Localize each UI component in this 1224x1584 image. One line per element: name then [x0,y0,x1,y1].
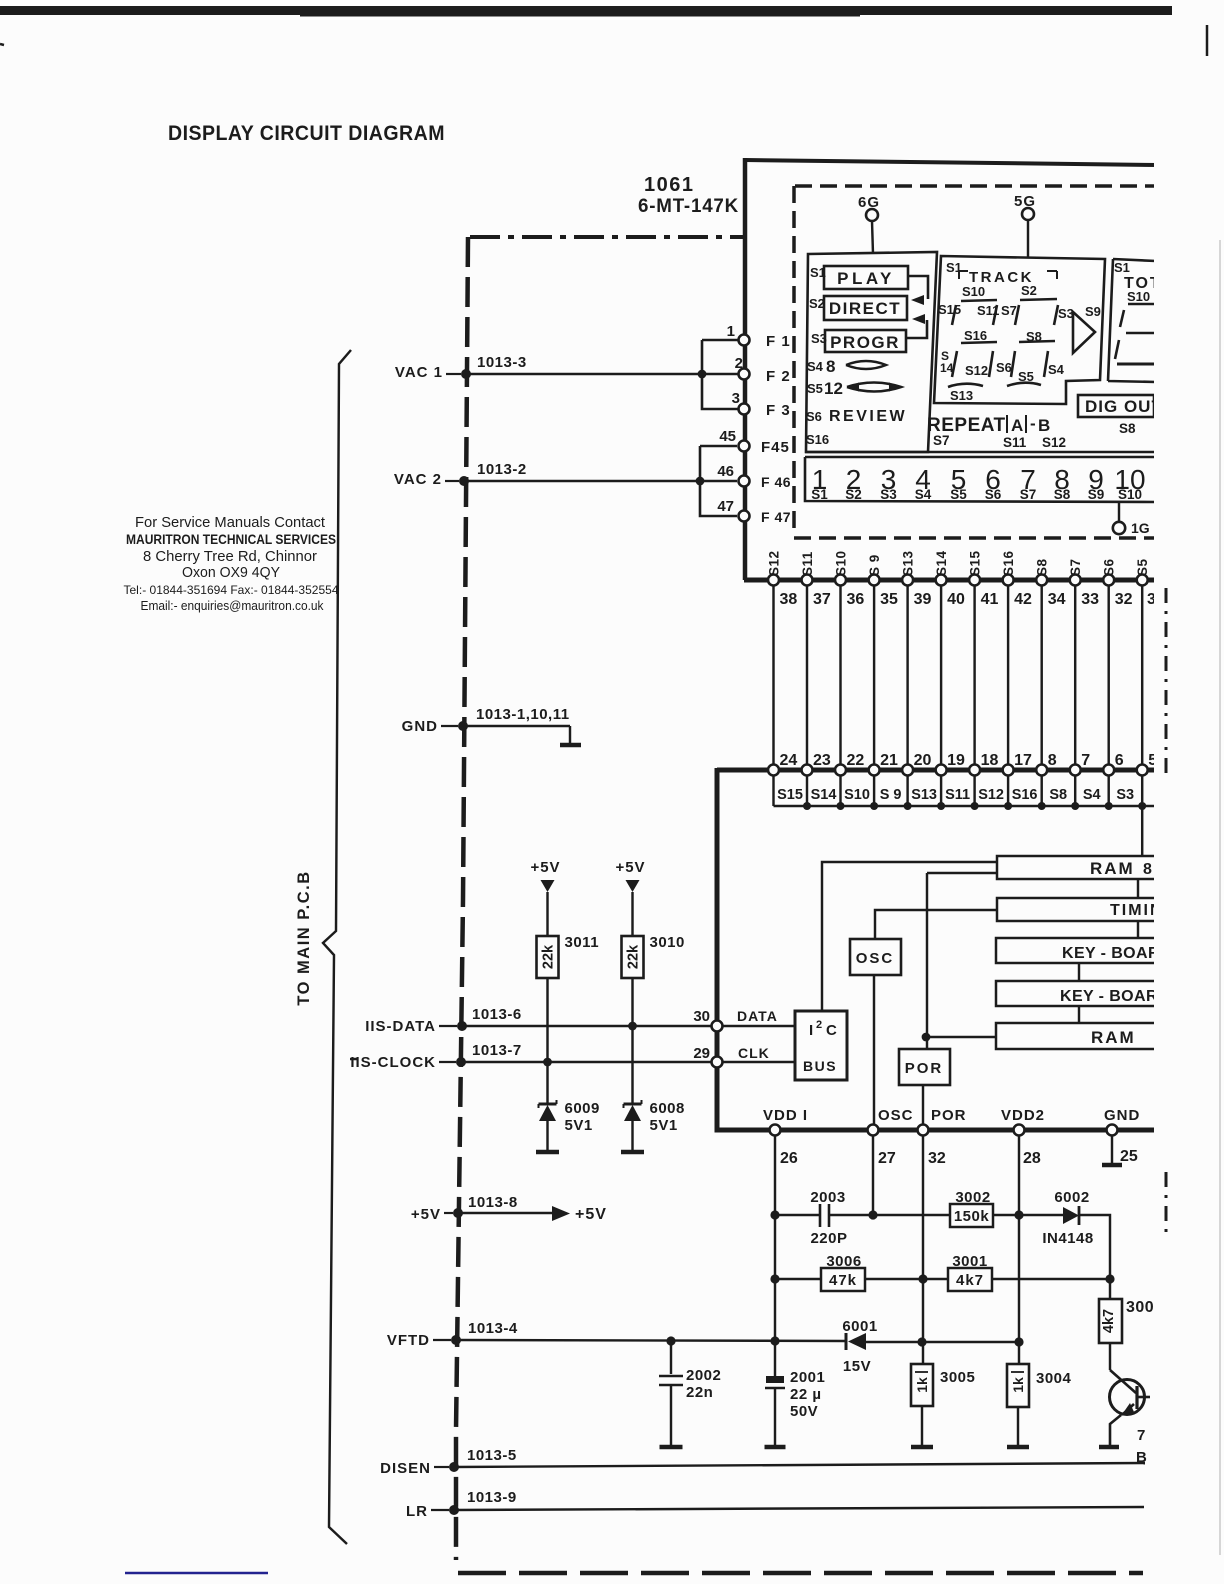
svg-text:GND: GND [402,718,438,735]
digits row box [805,457,1156,502]
svg-text:1013-4: 1013-4 [468,1320,518,1337]
arrow +5V [552,1206,570,1221]
ground symbol GND wire [560,743,581,748]
scan artifact grey edge line [1219,240,1221,1555]
block POR [899,1049,950,1085]
svg-text:S6: S6 [996,360,1012,375]
svg-text:OSC: OSC [878,1107,914,1124]
ground symbol col2 [621,1150,644,1155]
svg-text:S16: S16 [1001,550,1016,576]
svg-text:F 3: F 3 [766,402,791,419]
svg-text:S16: S16 [964,328,987,343]
block I2C BUS [795,1011,847,1080]
svg-text:S8: S8 [1049,787,1067,803]
wire line2 to 4k7 [1109,1279,1111,1299]
svg-text:For Service Manuals Contact: For Service Manuals Contact [135,514,326,531]
panel mode indicators outline [806,252,937,452]
wire net line2 mid [865,1278,948,1280]
svg-text:3001: 3001 [952,1253,987,1270]
svg-text:S2: S2 [1021,283,1037,298]
scan cut right margin [1154,18,1224,1584]
svg-text:1013-8: 1013-8 [468,1194,518,1211]
indicator box DIG OUT [1078,395,1154,417]
wire KEYBOARD-RAM [1078,1006,1080,1023]
svg-text:30: 30 [693,1008,710,1025]
svg-text:REVIEW: REVIEW [829,408,907,425]
svg-text:8: 8 [826,357,835,376]
block KEY-BOARD upper [996,938,1156,963]
svg-text:VAC 2: VAC 2 [394,471,442,488]
wire IIS-CLOCK to pin29 [461,1061,717,1063]
svg-text:23: 23 [813,752,831,769]
wire resistor 3010 down [631,978,633,1104]
svg-text:VAC 1: VAC 1 [395,364,443,381]
svg-text:5V1: 5V1 [650,1117,678,1134]
stray tick mark [350,1058,357,1061]
block RAM lower [996,1023,1156,1049]
wire RAM-TIMING [1137,879,1139,898]
svg-text:47: 47 [717,498,734,515]
display block top edge [745,160,1157,165]
svg-text:S15: S15 [938,302,961,317]
svg-text:17: 17 [1014,752,1032,769]
pin row B circles [768,765,779,776]
svg-text:S5: S5 [807,381,823,396]
svg-text:POR: POR [931,1107,967,1124]
wire LR [454,1507,1144,1510]
svg-text:F 47: F 47 [761,509,791,525]
svg-text:2: 2 [816,1019,822,1031]
resistor 3006 47k [821,1268,865,1291]
display block bottom edge (pin row A) [744,578,1156,583]
svg-text:150k: 150k [954,1208,990,1225]
wire +5V to resistor 3011 [546,892,548,936]
svg-text:46: 46 [717,463,734,480]
wire VAC1 to F2 bracket [466,373,702,375]
svg-text:S10: S10 [1118,487,1142,502]
junction dots VFTD line [666,1336,675,1345]
svg-text:S2: S2 [809,296,825,311]
svg-text:S6: S6 [985,487,1002,502]
svg-text:S3: S3 [1058,306,1074,321]
svg-text:F 46: F 46 [761,474,791,490]
panel TOT outline [1108,259,1156,382]
svg-text:22n: 22n [686,1384,713,1401]
diode 6002 1N4148 [1063,1207,1079,1224]
ground symbol 3005 [911,1445,933,1450]
zener diode 6009 5V1 [539,1103,557,1106]
svg-text:50V: 50V [790,1403,818,1420]
svg-text:VDD I: VDD I [763,1107,808,1124]
svg-text:S2: S2 [845,487,862,502]
svg-text:S3: S3 [1116,787,1134,803]
svg-text:VFTD: VFTD [387,1332,430,1349]
svg-text:+5V: +5V [411,1206,441,1223]
TOT digit segments [1128,303,1156,306]
svg-text:1061: 1061 [644,174,695,196]
svg-text:S7: S7 [933,433,950,448]
svg-text:VDD2: VDD2 [1001,1107,1045,1124]
svg-text:S12: S12 [767,550,782,576]
module boundary top dash-dot [470,235,744,239]
svg-text:34: 34 [1048,591,1066,608]
svg-text:1013-7: 1013-7 [472,1042,522,1059]
svg-text:20: 20 [914,752,932,769]
svg-text:S16: S16 [806,432,829,447]
svg-text:38: 38 [780,591,798,608]
digits row separator upper [805,451,1156,454]
svg-text:29: 29 [693,1045,710,1062]
segment box junction dots [803,802,811,810]
pin 1G [1118,502,1120,521]
svg-text:S4: S4 [1048,362,1065,377]
svg-text:S16: S16 [1012,787,1038,803]
wire VDD1 column [774,1135,776,1376]
wire net line2 left [775,1278,821,1280]
svg-text:S12: S12 [965,363,988,378]
svg-text:BUS: BUS [803,1058,837,1074]
svg-text:27: 27 [878,1150,896,1167]
svg-text:DIRECT: DIRECT [829,299,901,318]
svg-text:22k: 22k [541,944,557,969]
indicator box PLAY [824,266,908,289]
svg-text:Tel:- 01844-351694 Fax:- 01844: Tel:- 01844-351694 Fax:- 01844-352554 [124,583,339,597]
svg-text:S10: S10 [844,787,870,803]
svg-text:RAM: RAM [1090,859,1135,878]
svg-text:Email:- enquiries@mauritron.co: Email:- enquiries@mauritron.co.uk [141,599,325,613]
ground symbol pin25 [1111,1135,1113,1163]
pin 29 CLK [712,1057,723,1068]
wire diode 6002 corner [1079,1215,1110,1279]
svg-text:S10: S10 [1127,289,1150,304]
svg-text:42: 42 [1014,591,1032,608]
svg-text:24: 24 [780,752,798,769]
svg-text:S8: S8 [1054,487,1071,502]
wire bracket F45-F47 [700,446,737,516]
wire net line1 left [775,1214,820,1216]
wire zener 6008 to ground [631,1121,633,1150]
svg-text:+5V: +5V [615,859,645,876]
junction dots line2 [770,1274,779,1283]
indicator box DIRECT [824,296,907,320]
wire OSC to TIMING [875,910,997,939]
wire IIS-DATA to pin30 [462,1025,717,1027]
svg-text:37: 37 [813,591,831,608]
svg-text:3004: 3004 [1036,1370,1072,1387]
wire OSC column [872,1135,874,1215]
junction dot DATA-3010 [628,1022,637,1031]
svg-text:26: 26 [780,1150,798,1167]
svg-text:7: 7 [1137,1427,1145,1444]
svg-text:6002: 6002 [1054,1189,1089,1206]
svg-text:36: 36 [847,591,865,608]
svg-text:PROGR: PROGR [830,333,900,352]
svg-text:S11: S11 [1003,435,1027,450]
ground symbol 2002 [660,1445,683,1450]
svg-text:3011: 3011 [565,934,600,951]
svg-text:S 9: S 9 [867,554,882,576]
junction dots line1 [770,1210,779,1219]
resistor 3002 150k [950,1204,993,1227]
svg-text:3: 3 [732,390,740,407]
svg-text:S4: S4 [1083,787,1101,803]
wire POR column to RAM upper [926,873,928,1049]
block TIMING [997,898,1156,921]
segment S13 digit1 bottom [948,384,983,387]
svg-text:DISPLAY CIRCUIT DIAGRAM: DISPLAY CIRCUIT DIAGRAM [168,122,445,145]
ground symbol 3004 [1007,1445,1029,1450]
wire POR branch to RAM upper [927,872,997,874]
svg-text:3005: 3005 [940,1369,975,1386]
svg-text:8 Cherry Tree Rd, Chinnor: 8 Cherry Tree Rd, Chinnor [143,548,317,565]
wire TIMING-KEYBOARD [1137,921,1139,938]
wire net line2 right [992,1278,1110,1280]
ground symbol transistor [1099,1445,1119,1450]
svg-text:1G: 1G [1131,520,1150,536]
display block inner dashed left [792,186,796,530]
svg-text:I: I [809,1022,813,1039]
svg-text:LR: LR [406,1503,428,1520]
svg-text:1013-2: 1013-2 [477,461,527,478]
svg-text:CLK: CLK [738,1045,770,1061]
display block left edge [743,158,748,580]
svg-text:DIG OUT: DIG OUT [1085,397,1163,416]
svg-text:39: 39 [914,591,932,608]
svg-text:41: 41 [981,591,999,608]
module boundary right dash-dot lower [1165,1172,1168,1240]
display block inner dashed top [795,184,1156,188]
capacitor 2003 220P [819,1204,822,1227]
ic left edge thick [715,768,720,1132]
svg-text:6009: 6009 [565,1100,600,1117]
svg-text:4k7: 4k7 [1101,1309,1117,1333]
svg-text:45: 45 [719,428,736,445]
svg-text:22: 22 [847,752,865,769]
svg-text:S6: S6 [806,409,822,424]
wire VAC2 to F46 bracket [464,480,700,482]
svg-text:1: 1 [727,323,735,340]
wire line1 to diode [993,1214,1063,1216]
svg-text:S11: S11 [800,551,815,576]
svg-text:B: B [1038,416,1050,435]
svg-text:1k: 1k [914,1377,930,1393]
svg-text:DISEN: DISEN [380,1460,431,1477]
svg-text:S15: S15 [777,787,803,803]
segment digit2 bottom arc [1007,383,1041,386]
svg-text:KEY - BOARD: KEY - BOARD [1060,988,1170,1005]
wire VFTD line right [866,1341,1019,1343]
svg-text:3002: 3002 [955,1189,990,1206]
wire arrow loop PLAY to DIRECT [908,276,928,299]
wire POR to pin32 [922,1085,924,1130]
module boundary bottom dashed line [458,1571,1143,1576]
resistor 3001 4k7 [948,1268,992,1291]
svg-text:2001: 2001 [790,1369,825,1386]
svg-text:PLAY: PLAY [837,269,895,288]
svg-text:1013-5: 1013-5 [467,1447,517,1464]
wire zener 6009 to ground [546,1121,548,1150]
wire KEYBOARD-KEYBOARD [1078,963,1080,981]
wire S3 column to RAM [1141,806,1143,856]
svg-text:15V: 15V [843,1358,871,1375]
svg-text:19: 19 [947,752,965,769]
wire +5V feed [458,1212,552,1214]
junction dot POR-RAM2 [922,1033,931,1042]
svg-text:S8: S8 [1119,421,1136,436]
svg-text:RAM: RAM [1091,1028,1136,1047]
svg-text:22k: 22k [626,944,642,969]
wire +5V to resistor 3010 [631,892,633,936]
wire to RAM lower [926,1036,996,1038]
svg-text:F 2: F 2 [766,368,791,385]
brace TO MAIN P.C.B [323,350,351,1544]
diode 6001 15V [845,1333,848,1350]
svg-text:IIS-DATA: IIS-DATA [365,1018,436,1035]
segment boxes below row B [774,805,1157,807]
pins F1 F2 F3 circles [739,335,750,346]
svg-text:28: 28 [1023,1150,1041,1167]
svg-text:S1: S1 [811,487,828,502]
svg-text:8: 8 [1048,752,1057,769]
svg-text:32: 32 [1115,591,1133,608]
ground symbol 2001 [765,1445,786,1450]
svg-text:S12: S12 [978,787,1004,803]
svg-text:B: B [1136,1449,1147,1466]
scan artifact blue underline [125,1572,268,1575]
resistor 3004 1k [1007,1364,1029,1407]
block KEY-BOARD lower [996,981,1156,1006]
svg-text:7: 7 [1081,752,1090,769]
svg-text:F45: F45 [761,439,790,456]
svg-text:6: 6 [1115,752,1124,769]
wire arrow loop PROGR to DIRECT [906,320,927,338]
wire GND with ground stub [463,725,570,727]
ic bottom edge (bus) [715,1128,1157,1133]
svg-text:3006: 3006 [826,1253,861,1270]
scan artifact top bar [0,6,1172,15]
svg-text:4k7: 4k7 [956,1272,984,1289]
svg-text:S14: S14 [934,550,949,576]
svg-text:+5V: +5V [530,859,560,876]
svg-text:S11: S11 [945,787,970,803]
wire 3005 to ground [921,1406,923,1445]
wire 3004 to ground [1017,1407,1019,1445]
svg-text:1013-9: 1013-9 [467,1489,517,1506]
svg-text:S9: S9 [1085,304,1101,319]
wire VDD2 column down [1018,1135,1020,1364]
svg-text:S4: S4 [807,359,824,374]
pin row A circles [768,575,779,586]
capacitor 2002 22n [670,1341,672,1374]
wire VFTD line left [456,1340,846,1341]
resistor 3010 22k [622,936,644,978]
resistor 3005 1k [911,1364,933,1406]
svg-text:47k: 47k [829,1272,857,1289]
svg-text:S15: S15 [968,550,983,576]
module boundary right dash-dot upper [1165,588,1168,780]
svg-text:21: 21 [880,752,898,769]
svg-text:C: C [826,1022,837,1039]
svg-text:5V1: 5V1 [565,1117,593,1134]
scan artifact right tick [1206,25,1209,56]
resistor 3011 22k [537,936,559,978]
svg-text:POR: POR [905,1060,944,1077]
svg-text:+5V: +5V [575,1206,607,1223]
pin 30 DATA [712,1021,723,1032]
svg-text:1k: 1k [1010,1377,1026,1393]
wire I2C to RAM upper [822,862,997,1011]
svg-text:1013-6: 1013-6 [472,1006,522,1023]
svg-text:6008: 6008 [650,1100,685,1117]
svg-text:F 1: F 1 [766,333,791,350]
svg-text:35: 35 [880,591,898,608]
module boundary left dashed line [456,237,468,1560]
transistor 7xxx [1109,1343,1111,1370]
svg-text:S3: S3 [880,487,897,502]
svg-text:25: 25 [1120,1148,1138,1165]
indicator box PROGR [825,330,906,352]
svg-text:IN4148: IN4148 [1042,1230,1093,1247]
wire resistor 3011 down [546,978,548,1104]
ic top edge (pin row B) [717,768,1156,773]
svg-text:40: 40 [947,591,965,608]
svg-text:3010: 3010 [650,934,685,951]
wire net line1 mid [829,1214,950,1216]
svg-text:12: 12 [824,379,843,398]
capacitor 2001 22u 50V [766,1376,784,1383]
zener diode 6008 5V1 [624,1103,642,1106]
svg-text:DATA: DATA [737,1008,778,1024]
ground symbol col1 [536,1150,559,1155]
svg-text:S9: S9 [1088,487,1105,502]
svg-text:S5: S5 [950,487,967,502]
svg-text:S7: S7 [1020,487,1037,502]
svg-text:Oxon OX9 4QY: Oxon OX9 4QY [182,564,280,581]
svg-text:S12: S12 [1042,435,1066,450]
svg-text:S7: S7 [1001,303,1017,318]
display block inner dashed bottom [794,536,1156,540]
svg-text:S13: S13 [901,550,916,576]
svg-text:33: 33 [1081,591,1099,608]
wire bracket F1-F3 [702,340,741,409]
junction dot CLK-3011 [543,1058,552,1067]
svg-text:S 9: S 9 [880,787,902,803]
svg-text:IIS-CLOCK: IIS-CLOCK [350,1054,436,1071]
svg-text:S14: S14 [811,787,837,803]
svg-text:OSC: OSC [856,950,895,967]
block RAM upper [997,856,1156,879]
block OSC [850,939,901,975]
scan artifact left edge dot [0,44,4,45]
svg-text:6-MT-147K: 6-MT-147K [638,196,739,217]
svg-text:S13: S13 [950,388,973,403]
svg-text:GND: GND [1104,1107,1140,1124]
panel TRACK outline [934,256,1105,404]
svg-text:TO MAIN P.C.B: TO MAIN P.C.B [295,870,313,1005]
wire OSC to pin27 [873,975,875,1130]
junction dot F46 [696,477,705,486]
svg-text:22 µ: 22 µ [790,1386,822,1403]
svg-text:6001: 6001 [842,1318,877,1335]
svg-text:2003: 2003 [810,1189,845,1206]
svg-text:A: A [1011,416,1023,435]
svg-text:18: 18 [981,752,999,769]
svg-text:MAURITRON TECHNICAL SERVICES: MAURITRON TECHNICAL SERVICES [126,532,336,547]
svg-text:2002: 2002 [686,1367,721,1384]
pin row A wires down [772,583,774,768]
resistor 3003 4k7 vertical [1099,1299,1122,1343]
svg-text:1013-3: 1013-3 [477,354,527,371]
